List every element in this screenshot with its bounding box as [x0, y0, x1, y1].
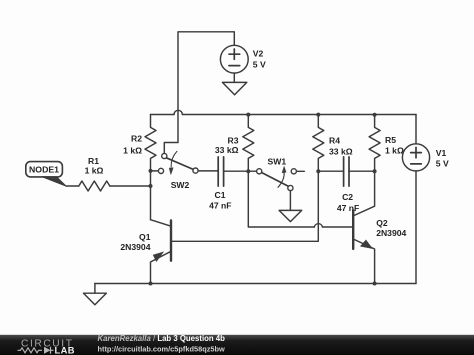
wire R2 bottom to R1 node	[150, 171, 152, 186]
wire V1 top drop	[415, 115, 417, 145]
V1 minus sign	[411, 163, 422, 165]
svg-text:C2: C2	[342, 192, 353, 202]
wire V1 bottom drop	[415, 171, 417, 284]
SW2 left throw contact	[158, 168, 163, 173]
svg-text:LAB: LAB	[55, 346, 75, 355]
wire SW2 common to C1	[198, 170, 218, 172]
wire Q1 collector riser	[150, 186, 152, 220]
junction R2 bottom SW2	[149, 169, 153, 173]
switch SW2 toggle arrow	[171, 151, 177, 167]
Q2 emitter arrow	[361, 240, 373, 249]
transistor Q2 collector	[353, 171, 374, 216]
voltage source V2	[220, 45, 248, 73]
junction Q2 emitter bottom	[373, 282, 377, 286]
svg-text:NODE1: NODE1	[29, 165, 59, 175]
junction R5 bottom	[373, 169, 377, 173]
transistor Q1 base bar	[170, 221, 172, 261]
V2 minus sign	[229, 65, 240, 67]
wire bottom rail to ground	[94, 284, 96, 294]
SW1 bottom throw contact	[288, 185, 293, 190]
wire cross-couple R4 node to Q1 base	[171, 171, 318, 241]
svg-text:5 V: 5 V	[253, 60, 266, 70]
svg-text:2N3904: 2N3904	[376, 228, 406, 238]
ground under SW1	[279, 210, 302, 221]
wire C1 to R3 node	[224, 170, 249, 172]
svg-text:33 kΩ: 33 kΩ	[329, 147, 353, 157]
wire hop over V2 branch on top rail	[174, 110, 182, 114]
svg-text:http://circuitlab.com/c5pfkd58: http://circuitlab.com/c5pfkd58qz5bw	[98, 344, 226, 353]
bottom rail wire	[95, 283, 416, 285]
junction R3 top	[246, 113, 250, 117]
capacitor C1	[218, 157, 223, 186]
wire V2 to ground	[233, 73, 235, 82]
wire hop to Q2 base	[323, 226, 354, 228]
svg-text:Q2: Q2	[376, 218, 388, 228]
svg-text:5 V: 5 V	[436, 159, 449, 169]
svg-text:R3: R3	[228, 135, 239, 145]
wire node to SW2 left throw	[151, 170, 159, 172]
Q1 emitter arrow	[153, 252, 163, 262]
svg-text:V2: V2	[253, 49, 264, 59]
svg-text:47 nF: 47 nF	[337, 203, 359, 213]
junction R4 bottom	[316, 169, 320, 173]
wire hop over Q1 base line	[314, 224, 322, 227]
wire R1 to node	[110, 185, 151, 187]
transistor Q2 base bar	[352, 211, 354, 249]
transistor Q1 collector	[151, 220, 172, 227]
svg-text:1 kΩ: 1 kΩ	[85, 166, 104, 176]
node flag NODE1	[26, 162, 63, 177]
V2 plus sign	[229, 49, 240, 59]
top rail wire	[151, 114, 175, 116]
resistor R2	[145, 115, 156, 171]
SW1 right throw contact	[291, 169, 296, 174]
transistor Q2 emitter	[353, 239, 374, 284]
ground at bottom left	[84, 293, 107, 305]
svg-text:1 kΩ: 1 kΩ	[385, 145, 404, 155]
resistor R3	[243, 115, 254, 172]
svg-text:SW1: SW1	[267, 157, 286, 167]
junction Q1 emitter bottom	[149, 282, 153, 286]
SW1 common contact	[257, 169, 262, 174]
wire C2 to R5 node	[349, 170, 375, 172]
ground under V2	[222, 82, 246, 94]
resistor R4	[313, 115, 324, 172]
NODE1 pointer tail	[42, 177, 67, 187]
svg-text:47 nF: 47 nF	[209, 200, 231, 210]
svg-text:KarenRezkalla / Lab 3 Question: KarenRezkalla / Lab 3 Question 4b	[98, 334, 226, 343]
junction R5 top	[373, 113, 377, 117]
wire R4 node to C2	[318, 170, 343, 172]
switch SW1 toggle arrow	[278, 172, 284, 188]
capacitor C2	[344, 157, 349, 186]
transistor Q1 emitter	[151, 251, 172, 283]
svg-text:2N3904: 2N3904	[120, 242, 150, 252]
junction dots	[149, 113, 377, 286]
svg-text:R1: R1	[88, 156, 99, 166]
wire V2 top loop	[164, 32, 234, 154]
svg-text:Q1: Q1	[139, 232, 151, 242]
svg-text:33 kΩ: 33 kΩ	[215, 145, 239, 155]
SW2 top throw contact	[162, 153, 167, 158]
wire NODE1 to R1	[66, 185, 79, 187]
svg-text:R2: R2	[131, 134, 142, 144]
switch SW2 blade	[166, 158, 193, 170]
V1 plus sign	[411, 147, 422, 157]
svg-text:R5: R5	[385, 135, 396, 145]
junction R1 node	[149, 184, 153, 188]
top rail wire right part	[182, 114, 416, 116]
switch SW1 unused throw stub	[296, 170, 304, 172]
wire SW1 to ground	[289, 191, 291, 211]
SW2 common contact	[193, 168, 198, 173]
footer bar	[0, 335, 474, 355]
switch SW1 blade	[261, 172, 288, 186]
svg-text:R4: R4	[329, 136, 340, 146]
resistor R5	[369, 115, 380, 172]
junction R3 bottom	[246, 169, 250, 173]
svg-text:SW2: SW2	[171, 180, 190, 190]
junction R4 top	[316, 113, 320, 117]
resistor R1	[79, 181, 110, 191]
wire R3 node to SW1 common	[248, 170, 256, 172]
voltage source V1	[402, 144, 429, 171]
wire cross-couple R3 node to Q2 base	[248, 171, 314, 227]
svg-text:C1: C1	[215, 190, 226, 200]
footer logo diode	[44, 347, 51, 354]
footer logo resistor squiggle	[18, 348, 43, 353]
switch contact circles	[158, 153, 296, 190]
svg-text:1 kΩ: 1 kΩ	[123, 146, 142, 156]
svg-text:V1: V1	[436, 148, 447, 158]
